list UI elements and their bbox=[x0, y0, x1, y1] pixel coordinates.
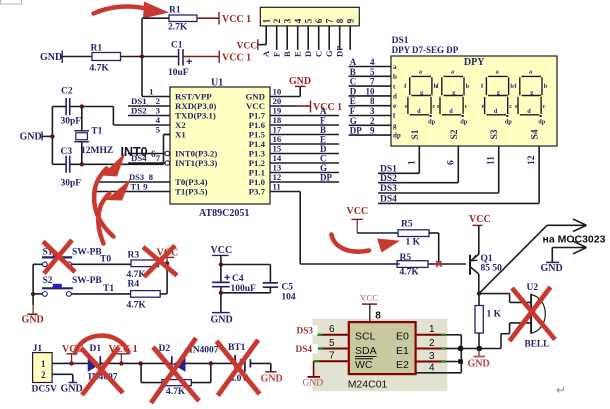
svg-text:S2: S2 bbox=[450, 129, 460, 139]
M24C01 pin 4 bbox=[416, 363, 462, 374]
svg-text:VCC 1: VCC 1 bbox=[313, 102, 342, 113]
M24C01 board panel bbox=[313, 319, 448, 391]
svg-text:b: b bbox=[393, 73, 397, 81]
svg-text:VCC: VCC bbox=[211, 245, 233, 256]
power port VCC (R3) bbox=[157, 248, 179, 264]
transistor Q1 8550 bbox=[470, 225, 502, 293]
wire diagonal to MOC3023 bbox=[479, 225, 547, 293]
op-amp U1 AT89C2051 body bbox=[170, 78, 270, 220]
svg-text:B: B bbox=[320, 125, 326, 135]
annotation red arc over D1 bbox=[75, 336, 129, 353]
svg-text:1: 1 bbox=[429, 324, 435, 335]
svg-text:DC5V: DC5V bbox=[32, 385, 57, 395]
svg-text:1 K: 1 K bbox=[406, 238, 421, 248]
annotation red arrow to INT0 bbox=[94, 153, 125, 237]
wire R3 to VCC junction bbox=[159, 262, 168, 264]
svg-text:3: 3 bbox=[429, 351, 435, 362]
svg-text:T1(P3.5): T1(P3.5) bbox=[175, 187, 208, 197]
7-seg digit 1 bbox=[404, 69, 437, 126]
svg-text:DS3: DS3 bbox=[129, 172, 144, 182]
svg-text:GND: GND bbox=[20, 132, 42, 143]
svg-text:e: e bbox=[393, 102, 396, 110]
svg-text:a: a bbox=[393, 63, 397, 71]
svg-text:TXD(P3.1): TXD(P3.1) bbox=[175, 111, 216, 121]
wire R1 to junction bbox=[121, 56, 143, 58]
svg-text:D: D bbox=[303, 51, 313, 57]
svg-text:INT0(P3.2): INT0(P3.2) bbox=[175, 149, 217, 159]
svg-text:AT89C2051: AT89C2051 bbox=[199, 208, 249, 219]
svg-text:4.7K: 4.7K bbox=[90, 64, 110, 74]
svg-text:11: 11 bbox=[487, 156, 497, 165]
resistor R5 1K bbox=[398, 220, 429, 248]
wire R1 left to vertical bbox=[142, 17, 169, 19]
svg-text:D: D bbox=[350, 86, 357, 96]
svg-text:2: 2 bbox=[156, 96, 161, 106]
wire D1 to VCC1 bbox=[100, 362, 140, 364]
display DS1 body bbox=[391, 56, 557, 146]
svg-text:S4: S4 bbox=[531, 129, 541, 139]
svg-text:U2: U2 bbox=[527, 283, 539, 293]
svg-text:C4: C4 bbox=[232, 274, 244, 284]
U1 internal pin names bbox=[175, 92, 266, 197]
svg-text:B: B bbox=[282, 51, 292, 57]
annotation red arrow pointing to R1 bbox=[94, 2, 170, 19]
power port VCC (C4) bbox=[211, 245, 233, 265]
U1 pin 5 wire bbox=[164, 134, 171, 136]
svg-text:T0(P3.4): T0(P3.4) bbox=[175, 177, 208, 187]
svg-text:A: A bbox=[350, 57, 357, 67]
crystal T1 12MHZ bbox=[74, 127, 113, 156]
connector J? 9-pin header bbox=[260, 7, 359, 26]
wire E-pins bus bbox=[460, 335, 462, 373]
svg-text:C1: C1 bbox=[171, 41, 183, 51]
svg-text:P1.2: P1.2 bbox=[249, 158, 266, 168]
display pin 3 wire, net F bbox=[349, 115, 391, 117]
svg-text:VCC: VCC bbox=[360, 293, 378, 303]
svg-text:8: 8 bbox=[370, 96, 375, 106]
svg-text:GND: GND bbox=[40, 52, 62, 63]
svg-text:GND: GND bbox=[261, 374, 283, 385]
svg-text:7: 7 bbox=[329, 351, 335, 362]
U1 pin 9 wire, node T1 bbox=[97, 191, 171, 193]
wire S2 left bbox=[33, 293, 42, 295]
svg-text:20: 20 bbox=[273, 96, 282, 106]
svg-text:DS3: DS3 bbox=[380, 184, 397, 194]
svg-text:D1: D1 bbox=[90, 344, 102, 354]
svg-text:d: d bbox=[393, 92, 397, 100]
U1 right pin numbers bbox=[273, 87, 282, 192]
wire display 6 to DS2 bbox=[457, 146, 459, 183]
svg-text:DP: DP bbox=[320, 173, 332, 183]
svg-text:15: 15 bbox=[273, 144, 282, 154]
svg-text:F: F bbox=[271, 52, 281, 57]
svg-text:85 50: 85 50 bbox=[481, 264, 503, 274]
svg-text:R3: R3 bbox=[128, 251, 140, 261]
svg-text:1 K: 1 K bbox=[487, 310, 502, 320]
svg-text:104: 104 bbox=[281, 293, 296, 303]
svg-text:G: G bbox=[320, 163, 327, 173]
svg-text:12: 12 bbox=[527, 155, 537, 165]
svg-text:4.7K: 4.7K bbox=[127, 301, 147, 311]
wire GND to bus bbox=[42, 135, 52, 137]
M24C01 pin 6 SCL bbox=[318, 324, 349, 335]
svg-text:BT1: BT1 bbox=[228, 343, 246, 353]
ground GND (switches) bbox=[22, 294, 44, 326]
wire net T1 bbox=[71, 293, 130, 295]
annotation red X over S1 bbox=[43, 240, 75, 274]
M24C01 pin 5 SDA bbox=[318, 338, 349, 349]
annotation red arrow to T1/DS3 bbox=[98, 179, 131, 244]
svg-text:7: 7 bbox=[324, 18, 334, 23]
svg-text:C2: C2 bbox=[61, 87, 73, 97]
M24C01 pin 7 WC to GND bbox=[303, 351, 349, 389]
svg-text:R5: R5 bbox=[401, 220, 413, 230]
U1 pin 17 wire, net B bbox=[270, 134, 339, 136]
svg-text:T1: T1 bbox=[91, 127, 102, 137]
svg-text:VCC 1: VCC 1 bbox=[222, 14, 251, 25]
wire C4 branch bbox=[220, 265, 222, 283]
node DS3 label bbox=[295, 326, 318, 337]
wire C1 to VCC1 bbox=[183, 56, 219, 58]
resistor 1K (Q1 collector) bbox=[475, 306, 502, 334]
U1 pin 3 wire, node DS2 bbox=[128, 115, 170, 117]
svg-text:GND: GND bbox=[303, 379, 324, 389]
svg-text:A: A bbox=[320, 106, 327, 116]
connector J1 DC5V bbox=[32, 344, 57, 395]
svg-text:4.7K: 4.7K bbox=[166, 387, 186, 397]
resistor R4 4.7K bbox=[127, 280, 161, 311]
capacitor C1 10uF bbox=[168, 41, 192, 79]
svg-text:7: 7 bbox=[370, 77, 375, 87]
svg-text:9: 9 bbox=[345, 18, 355, 23]
svg-text:A: A bbox=[261, 50, 271, 57]
power port VCC1 (top) bbox=[219, 12, 251, 25]
svg-text:E2: E2 bbox=[396, 359, 409, 371]
svg-text:C: C bbox=[320, 154, 327, 164]
svg-text:19: 19 bbox=[273, 106, 282, 116]
svg-text:VCC: VCC bbox=[246, 101, 265, 111]
power port VCC (R5 1K) bbox=[347, 206, 369, 233]
svg-text:S2: S2 bbox=[43, 276, 53, 286]
svg-text:2: 2 bbox=[41, 370, 46, 380]
power port VCC1 (D1) bbox=[109, 344, 138, 363]
wire R1 right to VCC1 bbox=[197, 17, 219, 19]
svg-text:18: 18 bbox=[273, 115, 282, 125]
svg-text:DPY: DPY bbox=[464, 57, 485, 68]
M24C01 pin 2 E1 bbox=[416, 338, 461, 349]
ground GND (left of R1 4.7K) bbox=[40, 51, 62, 64]
svg-text:1: 1 bbox=[407, 160, 417, 165]
svg-text:3: 3 bbox=[156, 106, 161, 116]
svg-text:S3: S3 bbox=[490, 129, 500, 139]
wire display 1 to DS1 bbox=[418, 146, 420, 173]
svg-text:X1: X1 bbox=[175, 130, 186, 140]
svg-text:5: 5 bbox=[156, 125, 161, 135]
svg-text:VCC: VCC bbox=[469, 214, 491, 225]
svg-text:17: 17 bbox=[273, 125, 282, 135]
wire crystal left bus bbox=[51, 107, 53, 165]
svg-text:S1: S1 bbox=[411, 129, 421, 139]
resistor bypass under D2 bbox=[141, 363, 211, 397]
svg-text:3: 3 bbox=[282, 18, 292, 23]
wire bus to C2 bbox=[52, 106, 66, 108]
svg-text:2: 2 bbox=[272, 18, 282, 23]
svg-text:INT1(P3.3): INT1(P3.3) bbox=[175, 158, 217, 168]
arrowhead (upper) bbox=[573, 219, 587, 232]
wire collector chain bbox=[478, 294, 480, 306]
svg-text:4: 4 bbox=[293, 18, 303, 23]
annotation red X over U2 bbox=[510, 287, 556, 341]
svg-text:dp: dp bbox=[393, 132, 401, 140]
arrow to GND (lower) bbox=[552, 241, 586, 262]
svg-text:1: 1 bbox=[41, 359, 46, 369]
svg-text:D: D bbox=[320, 144, 327, 154]
svg-text:9: 9 bbox=[143, 182, 148, 192]
svg-text:DP: DP bbox=[334, 46, 344, 57]
wire J1 pin2 to GND bbox=[52, 374, 83, 394]
svg-text:1: 1 bbox=[261, 18, 271, 23]
svg-text:6: 6 bbox=[446, 160, 456, 165]
wire bus to C3 bbox=[52, 163, 66, 165]
display pin 7 wire, net C bbox=[349, 85, 391, 87]
U1 pin 19 wire, net A bbox=[270, 115, 339, 117]
annotation red X over D2 bbox=[151, 338, 199, 403]
annotation red X over BT1 bbox=[216, 340, 259, 396]
svg-text:16: 16 bbox=[273, 134, 282, 144]
svg-text:14: 14 bbox=[273, 153, 282, 163]
ground GND (1K) red bbox=[468, 349, 490, 370]
svg-text:SCL: SCL bbox=[355, 331, 376, 343]
svg-text:R4: R4 bbox=[128, 280, 140, 290]
svg-text:4: 4 bbox=[429, 363, 435, 374]
svg-text:G: G bbox=[350, 116, 357, 126]
U1 pin 15 wire, net D bbox=[270, 153, 339, 155]
svg-text:2: 2 bbox=[370, 116, 375, 126]
annotation red X over R3 bbox=[143, 246, 177, 278]
svg-text:4: 4 bbox=[156, 115, 161, 125]
wire C4/C5 bottom rail bbox=[221, 292, 271, 294]
svg-text:3: 3 bbox=[370, 106, 375, 116]
svg-text:SW-PB: SW-PB bbox=[72, 276, 102, 286]
display DS1 DPY D7-SEG label bbox=[392, 36, 459, 55]
svg-text:C: C bbox=[313, 51, 323, 57]
wire display 11 to DS3 bbox=[498, 146, 500, 193]
U1 pin 16 wire, net E bbox=[270, 143, 339, 145]
U1 pin 18 wire, net F bbox=[270, 124, 339, 126]
power port VCC (Q1) bbox=[469, 214, 491, 225]
svg-text:C3: C3 bbox=[61, 147, 73, 157]
svg-text:P1.6: P1.6 bbox=[249, 120, 266, 130]
svg-text:R5: R5 bbox=[400, 253, 412, 263]
M24C01 pin 3 E2 bbox=[416, 351, 461, 362]
7-seg digit 3 bbox=[481, 69, 514, 126]
annotation red arrow to R5 1K bbox=[332, 235, 401, 253]
wire J1 pin1 bbox=[52, 362, 88, 364]
svg-text:5: 5 bbox=[329, 338, 335, 349]
wire bus to 1K junction bbox=[461, 348, 479, 350]
power port VCC (M24C01) bbox=[360, 293, 381, 323]
diode D1 IN4007 bbox=[88, 344, 118, 383]
svg-text:2.7K: 2.7K bbox=[168, 23, 188, 33]
svg-text:C: C bbox=[350, 77, 357, 87]
svg-text:DS4: DS4 bbox=[131, 153, 147, 163]
svg-text:VCC 1: VCC 1 bbox=[222, 53, 251, 64]
svg-text:DPY D7-SEG DP: DPY D7-SEG DP bbox=[392, 45, 459, 55]
svg-text:G: G bbox=[324, 50, 334, 57]
U1 pin 7 wire, node DS4 bbox=[128, 153, 170, 165]
svg-text:M24C01: M24C01 bbox=[348, 379, 388, 391]
capacitor C3 30pF bbox=[61, 147, 82, 189]
diode D2 IN4007 bbox=[141, 344, 219, 372]
resistor R3 4.7K bbox=[127, 251, 159, 281]
svg-text:DS3: DS3 bbox=[297, 327, 314, 337]
svg-text:9: 9 bbox=[370, 126, 375, 136]
display pin 10 wire, net D bbox=[349, 95, 391, 97]
U1 pin 4 wire bbox=[113, 124, 170, 126]
svg-text:5: 5 bbox=[370, 67, 375, 77]
wire vertical net RST bbox=[141, 18, 143, 96]
ground GND (U1 pin10) bbox=[289, 76, 311, 87]
svg-text:E1: E1 bbox=[396, 345, 409, 357]
svg-text:11: 11 bbox=[273, 182, 281, 192]
svg-text:P1.7: P1.7 bbox=[249, 111, 266, 121]
svg-text:DS2: DS2 bbox=[380, 174, 397, 184]
svg-text:GND: GND bbox=[22, 315, 44, 326]
U1 pin 20 wire to VCC1 bbox=[270, 105, 296, 107]
display pin 9 wire, net DP bbox=[349, 134, 391, 136]
capacitor C2 30pF bbox=[61, 87, 82, 127]
svg-text:↵: ↵ bbox=[556, 383, 566, 397]
svg-text:T0: T0 bbox=[100, 254, 111, 264]
U1 pin 12 wire, net DP bbox=[270, 181, 339, 183]
svg-text:P3.7: P3.7 bbox=[249, 187, 266, 197]
svg-text:10: 10 bbox=[366, 86, 376, 96]
svg-text:DS1: DS1 bbox=[131, 96, 147, 106]
power port VCC1 (C1) bbox=[219, 51, 251, 64]
7-seg digit 2 bbox=[436, 69, 469, 126]
svg-text:DP: DP bbox=[350, 126, 362, 136]
svg-text:X2: X2 bbox=[175, 120, 186, 130]
svg-text:DS4: DS4 bbox=[380, 195, 397, 205]
U1 pin 6 wire, node INT0 bbox=[121, 145, 170, 159]
svg-text:DS4: DS4 bbox=[296, 345, 313, 355]
resistor R5 4.7K bbox=[397, 253, 428, 278]
ground GND (crystal) bbox=[20, 131, 43, 142]
svg-text:BELL: BELL bbox=[525, 340, 550, 350]
svg-text:7: 7 bbox=[156, 153, 161, 163]
svg-text:E0: E0 bbox=[396, 331, 409, 343]
wire VCC to header pin1 bbox=[258, 44, 266, 46]
svg-text:P1.0: P1.0 bbox=[249, 177, 266, 187]
svg-text:RST/VPP: RST/VPP bbox=[175, 92, 212, 102]
U1 pin 11 wire (P3.7) bbox=[270, 191, 300, 193]
svg-text:GND: GND bbox=[211, 315, 233, 326]
svg-text:IN4007: IN4007 bbox=[189, 346, 219, 356]
wire switches common bbox=[32, 264, 34, 294]
ground GND (C4) bbox=[211, 293, 233, 326]
switch S1 SW-PB bbox=[42, 248, 102, 267]
svg-text:P1.3: P1.3 bbox=[249, 149, 266, 159]
display pin 5 wire, net B bbox=[349, 75, 391, 77]
battery BT1 3.0V bbox=[211, 343, 251, 384]
ground GND (BT1) red bbox=[250, 363, 282, 384]
svg-text:F: F bbox=[320, 116, 326, 126]
svg-text:13: 13 bbox=[273, 163, 282, 173]
power port VCC1 (U1 pin20) bbox=[311, 101, 343, 114]
wire R5 1K to junction bbox=[429, 232, 439, 234]
svg-text:6: 6 bbox=[314, 18, 324, 23]
svg-text:E: E bbox=[350, 96, 356, 106]
annotation small red x at junction bbox=[436, 261, 442, 267]
annotation red X over D1 bbox=[81, 347, 123, 395]
svg-text:R1: R1 bbox=[169, 6, 181, 16]
wire VCC to R5 bbox=[357, 232, 398, 234]
svg-text:SW-PB: SW-PB bbox=[72, 248, 102, 258]
svg-text:10: 10 bbox=[273, 87, 282, 97]
wire crystal branch bbox=[81, 107, 83, 131]
svg-text:SDA: SDA bbox=[355, 345, 377, 357]
7-seg digit 4 bbox=[514, 69, 547, 126]
power port VCC (J1) bbox=[62, 344, 84, 363]
U1 pin 13 wire, net G bbox=[270, 172, 339, 174]
svg-text:2: 2 bbox=[429, 338, 435, 349]
U1 pin 14 wire, net C bbox=[270, 162, 339, 164]
display pin 4 wire, net A bbox=[349, 66, 391, 68]
svg-text:5: 5 bbox=[303, 18, 313, 23]
U1 pin 10 wire to GND bbox=[270, 96, 300, 98]
display pin 8 wire, net E bbox=[349, 105, 391, 107]
svg-text:P1.1: P1.1 bbox=[249, 168, 265, 178]
svg-text:C5: C5 bbox=[281, 283, 293, 293]
svg-text:GND: GND bbox=[289, 76, 311, 87]
svg-text:на MOC3023: на MOC3023 bbox=[543, 234, 606, 246]
resistor R1 2.7K bbox=[168, 6, 197, 33]
svg-text:8: 8 bbox=[149, 172, 154, 182]
wire GND to R1 bbox=[62, 56, 92, 58]
svg-text:GND: GND bbox=[245, 92, 265, 102]
capacitor C4 100uF bbox=[212, 274, 256, 294]
svg-text:GND: GND bbox=[468, 359, 490, 370]
svg-text:P1.5: P1.5 bbox=[249, 130, 266, 140]
svg-text:VCC: VCC bbox=[237, 42, 258, 52]
node DS4 label bbox=[294, 344, 318, 355]
svg-text:10uF: 10uF bbox=[168, 68, 189, 78]
wire net T0 bbox=[72, 263, 131, 265]
wire S1 left bbox=[33, 263, 42, 265]
svg-text:30pF: 30pF bbox=[61, 179, 82, 189]
svg-text:E: E bbox=[320, 135, 326, 145]
corner artifact box bbox=[1, 0, 22, 4]
U1 pin 2 wire, node DS1 bbox=[128, 105, 170, 107]
svg-text:8: 8 bbox=[375, 311, 381, 322]
capacitor C5 104 bbox=[263, 283, 296, 303]
svg-text:1: 1 bbox=[149, 87, 153, 97]
svg-text:E: E bbox=[292, 51, 302, 57]
power port VCC (header) bbox=[237, 39, 258, 51]
svg-text:12MHZ: 12MHZ bbox=[81, 146, 113, 156]
wire C2 to X2 bbox=[70, 106, 114, 108]
svg-text:30pF: 30pF bbox=[61, 117, 82, 127]
wire C3 to X1 bbox=[70, 163, 164, 165]
svg-text:4: 4 bbox=[370, 57, 375, 67]
svg-text:P1.4: P1.4 bbox=[249, 139, 266, 149]
svg-text:Q1: Q1 bbox=[481, 254, 493, 264]
svg-text:GND: GND bbox=[61, 384, 83, 395]
wire C4/C5 top rail bbox=[221, 264, 271, 266]
wire junction to C1 bbox=[142, 56, 179, 58]
svg-text:RXD(P3.0): RXD(P3.0) bbox=[175, 101, 216, 111]
svg-text:F: F bbox=[350, 106, 356, 116]
